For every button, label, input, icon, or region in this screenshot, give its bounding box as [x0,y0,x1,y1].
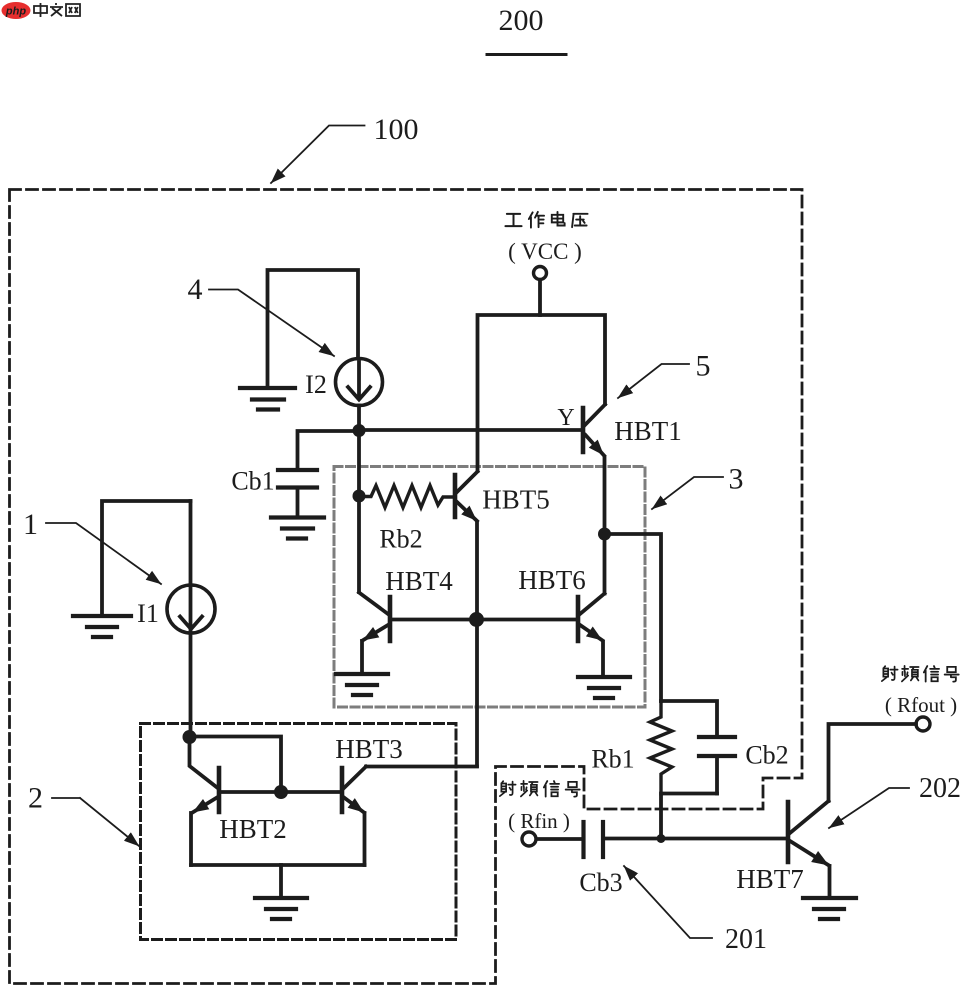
svg-text:202: 202 [919,773,961,804]
svg-text:HBT5: HBT5 [482,485,550,515]
wire HBT4 collector column [357,496,361,592]
wire Rb1/Cb2 top link [661,701,717,736]
label 5 with leader arrow [618,350,711,399]
node E (I1 / HBT2 collector) [183,730,197,744]
capacitor Cb2 [699,737,789,794]
capacitor Cb1 [231,467,317,518]
current source I1 [137,585,215,633]
svg-text:100: 100 [374,113,419,146]
svg-text:2: 2 [28,782,43,815]
wire VCC rail rectangle top [478,315,606,471]
ground (HBT4) [336,674,388,695]
svg-text:Rb1: Rb1 [591,745,634,774]
wire node E to HBT3 base column [190,737,282,793]
svg-text:Y: Y [557,405,574,431]
node G (RF input line) [657,834,666,843]
svg-text:Cb2: Cb2 [745,741,788,770]
svg-text:5: 5 [696,350,711,383]
wire HBT3 collector link [366,765,477,769]
ground (I2) [240,388,295,410]
svg-text:HBT2: HBT2 [219,814,287,844]
svg-text:HBT4: HBT4 [385,566,453,596]
transistor HBT2 [189,737,286,865]
svg-text:php: php [5,6,26,18]
dashed box 2 (mirror block HBT2/HBT3) [141,724,457,940]
label 工作电压 (VCC) [505,212,587,264]
transistor HBT6 [518,534,606,676]
svg-text:I2: I2 [305,370,327,399]
current source I2 [305,359,382,406]
label 200 [499,4,544,37]
label 3 with leader arrow [652,463,744,510]
transistor HBT4 [359,566,474,673]
svg-text:Cb3: Cb3 [579,868,622,897]
resistor Rb1 [591,701,672,794]
label 4 with leader arrow [188,273,335,356]
wire base bus to HBT6 [477,618,577,622]
wire I1 column [189,501,193,736]
wire HBT5 emitter column [475,523,479,766]
site logo php中文网 [2,2,81,19]
ground (I1) [73,616,131,637]
node C (Rb2 / HBT4 collector) [353,490,366,503]
ground (HBT7) [803,898,856,919]
wire emitter bus HBT2/HBT3 [191,863,365,867]
wire I2 to node B [357,406,361,431]
svg-text:201: 201 [725,924,767,955]
wire Rb1/Cb2 bottom link [661,794,717,839]
node D (bases of HBT4/HBT6) [469,612,484,627]
label 2 with leader arrow [28,782,139,847]
svg-text:200: 200 [499,4,544,37]
label 1 with leader arrow [23,508,161,584]
label 202 with leader arrow [829,773,961,828]
RF input terminal [522,832,536,846]
node F (bases of HBT2/HBT3) [274,785,288,799]
svg-text:Rb2: Rb2 [379,525,422,554]
label 201 with leader arrow [624,866,767,955]
ground (HBT6) [578,677,630,698]
wire node A to Rb1 branch [605,534,662,701]
label 射频信号 (Rfout) [882,666,959,717]
wire RF line to HBT7 [605,837,786,841]
wire Cb1 branch [298,431,360,469]
label 100 with leader arrow [271,113,419,183]
wire HBT7 collector to Rfout [829,724,917,801]
dashed box 100 (module outline) [10,190,803,984]
svg-text:4: 4 [188,273,203,306]
ground (Cb1) [271,518,324,539]
svg-text:1: 1 [23,508,38,541]
svg-text:I1: I1 [137,599,159,628]
ground (HBT2/HBT3) [255,898,307,919]
transistor HBT7 [736,801,832,897]
svg-text:HBT3: HBT3 [335,734,403,764]
wire ground tap [279,865,283,897]
transistor HBT1 [359,405,682,535]
svg-text:( Rfout ): ( Rfout ) [885,693,957,717]
wire VCC lead [538,280,542,315]
underline of 200 [487,53,566,56]
svg-text:HBT6: HBT6 [518,565,586,595]
svg-text:3: 3 [729,463,744,496]
resistor Rb2 [359,486,453,554]
svg-text:HBT1: HBT1 [614,416,682,446]
transistor HBT3 [281,734,403,865]
current source I2 rectangle [268,270,359,388]
capacitor Cb3 [579,822,622,897]
node A (HBT1 emitter / HBT6 collector) [598,528,611,541]
svg-text:( VCC ): ( VCC ) [508,239,582,264]
current source I1 rectangle [102,501,191,616]
svg-text:Cb1: Cb1 [231,467,274,496]
RF output terminal [916,717,930,731]
node B (I2 / Cb1 / HBT1 base) [353,424,366,437]
dashed box 3 (current mirror block) [334,467,645,708]
VCC terminal [534,267,547,280]
svg-text:HBT7: HBT7 [736,864,804,894]
transistor HBT5 [455,472,550,526]
label 射频信号 (Rfin) [500,781,580,833]
wire Rfin lead [537,837,583,841]
wire node B down to Rb2 node [357,431,361,497]
svg-text:( Rfin ): ( Rfin ) [508,809,570,833]
